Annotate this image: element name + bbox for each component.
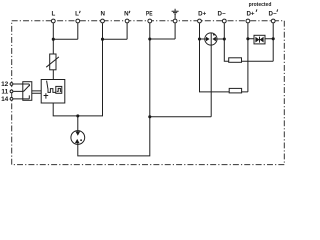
svg-text:D−: D− bbox=[269, 11, 277, 18]
svg-text:PE: PE bbox=[146, 11, 153, 18]
svg-text:protected: protected bbox=[249, 2, 272, 8]
svg-text:N: N bbox=[100, 11, 105, 18]
svg-text:N: N bbox=[124, 11, 129, 18]
svg-text:12: 12 bbox=[1, 81, 9, 88]
svg-text:D−: D− bbox=[218, 11, 226, 18]
svg-text:L: L bbox=[75, 11, 79, 18]
svg-text:D+: D+ bbox=[246, 11, 254, 18]
svg-text:D+: D+ bbox=[198, 11, 206, 18]
svg-text:11: 11 bbox=[1, 89, 8, 96]
svg-text:14: 14 bbox=[1, 96, 9, 103]
svg-text:L: L bbox=[52, 11, 56, 18]
